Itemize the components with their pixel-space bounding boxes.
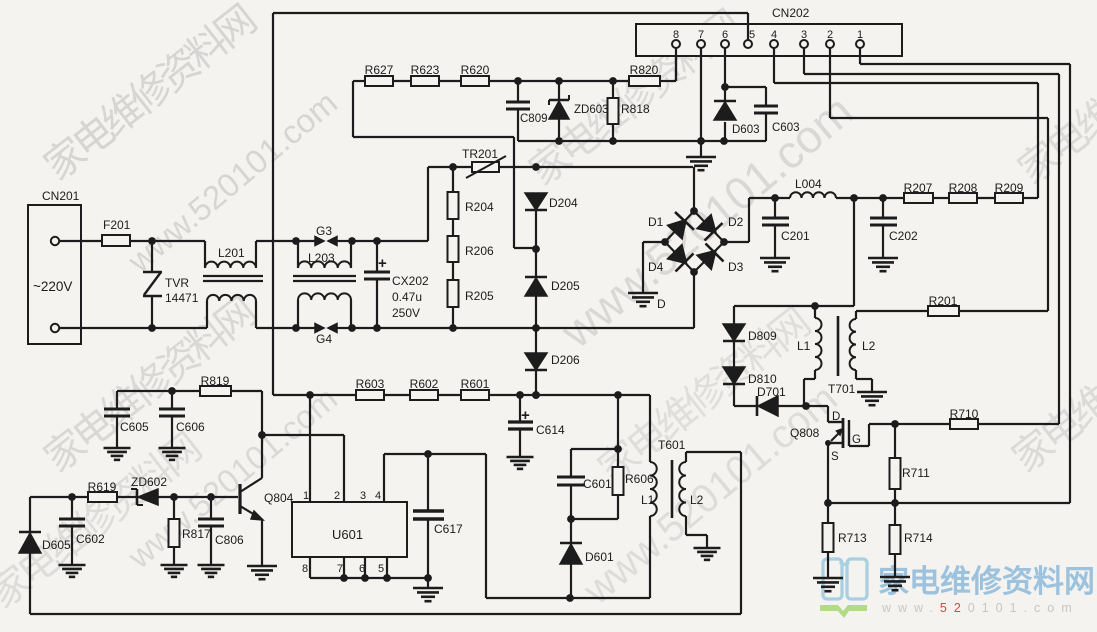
resistor R603 [356,377,385,400]
node D701 T701 junction [802,402,828,410]
wire R602-R601 [438,394,461,396]
wire Q808 gate [849,424,895,446]
svg-text:G: G [852,434,861,446]
ground C605 [104,448,131,460]
capacitor C605 [104,391,149,448]
svg-text:4: 4 [771,29,777,41]
svg-text:5: 5 [749,29,755,41]
resistor R818 [608,81,651,141]
capacitor C606 [159,391,205,448]
svg-text:2: 2 [827,29,833,41]
wire R603 row left [273,391,356,399]
svg-text:R713: R713 [838,531,867,545]
svg-text:ZD602: ZD602 [131,475,167,489]
wire CN201 to F201 [59,240,102,242]
ground U601 bus [413,578,443,601]
wire source rail [824,499,1070,507]
svg-text:L1: L1 [797,339,811,353]
svg-text:CN201: CN201 [42,189,80,203]
inductor L004 [790,177,836,198]
svg-text:R602: R602 [410,377,439,391]
svg-text:2: 2 [334,490,340,502]
transistor Q804 [240,478,294,520]
wire pin5 into CN202 [747,13,749,40]
wire pin7 stub [700,48,702,141]
inductor L201 top winding [205,241,256,268]
svg-text:L2: L2 [690,493,704,507]
thermistor TR201 [462,147,506,178]
transformer T701 core [837,316,840,376]
svg-text:1: 1 [857,29,863,41]
wire R603-R602 [384,394,410,396]
svg-text:R711: R711 [902,466,930,480]
svg-text:G3: G3 [316,224,332,238]
wire bridge left to D ground [643,242,665,293]
spark gap G3 [292,224,356,246]
capacitor C614 [508,395,565,457]
svg-text:5: 5 [378,563,384,575]
svg-text:250V: 250V [392,306,420,320]
svg-text:C605: C605 [120,420,149,434]
svg-text:R819: R819 [201,374,230,388]
wire R209 to pin4 [1023,197,1038,199]
svg-text:R817: R817 [182,527,211,541]
zener diode ZD602 [117,475,238,505]
svg-text:3: 3 [801,29,807,41]
ground C614 [507,457,534,469]
wire R208-R209 [977,197,995,199]
transformer T601 secondary L2 [679,452,707,548]
ground C201 [760,258,790,271]
logo 520101 bottom right [820,559,1095,618]
svg-text:R206: R206 [465,244,494,258]
diode D809 [723,306,777,343]
capacitor C617 [413,454,463,578]
wire U601 pin4 row [384,450,486,502]
wire pin4 harness [774,48,1038,198]
svg-text:C603: C603 [772,122,800,134]
svg-text:D601: D601 [585,550,614,564]
diode D206 [525,328,580,399]
wire R619 row [30,493,88,501]
svg-text:D4: D4 [648,260,664,274]
transformer T601 primary L1 [641,395,657,598]
svg-text:T601: T601 [658,438,686,452]
transformer T601 core [671,460,674,518]
wire Q804 emitter [261,520,263,566]
svg-text:D603: D603 [732,124,760,136]
bridge rectifier D1 D2 D3 D4 [648,167,744,276]
wire D204 node [532,210,540,253]
svg-text:C614: C614 [536,423,565,437]
diode D204 [525,193,578,210]
svg-text:D1: D1 [648,215,664,229]
resistor R606 [567,449,654,523]
wire D810 to D701 [734,384,757,406]
ground C806 [198,565,225,577]
capacitor C602 [59,497,105,565]
resistor R208 [949,181,978,203]
varistor TVR 14471 [143,241,199,328]
svg-text:D: D [832,411,840,423]
resistor R713 [823,503,868,578]
resistor R209 [995,181,1024,203]
label T701 [828,382,856,396]
svg-text:8: 8 [302,563,308,575]
inductor L201 bottom winding [207,295,256,328]
transformer T701 primary L1 [797,306,822,406]
svg-text:www.520101.com: www.520101.com [881,601,1079,615]
svg-text:C201: C201 [781,229,810,243]
svg-text:R207: R207 [904,181,933,195]
capacitor CX202 0.47u 250V [364,237,429,328]
wire T701 L2 to R201 [856,310,928,312]
svg-text:L004: L004 [795,177,822,191]
wire Q808 source [827,443,829,503]
svg-text:7: 7 [698,29,704,41]
svg-text:D: D [657,297,666,311]
diode D701 [757,385,806,416]
resistor R820 [629,48,676,86]
diode D205 [525,249,580,296]
resistor R627 [353,63,394,86]
ground R713 [813,578,843,591]
svg-text:C606: C606 [176,420,205,434]
svg-text:R620: R620 [461,63,490,77]
zener diode ZD603 [549,81,609,141]
wire R207-R208 [933,197,949,199]
diode D601 [560,519,614,598]
diode D810 [723,341,777,386]
svg-text:Q804: Q804 [264,491,294,505]
svg-text:C601: C601 [583,477,612,491]
wire F201 to L201 [130,237,205,245]
wire R601 row right [489,391,650,399]
svg-text:4: 4 [375,490,381,502]
connector CN202 [636,6,902,56]
transformer T701 secondary L2 [850,311,876,392]
capacitor C201 [762,198,810,258]
capacitor C806 [198,497,244,565]
resistor R205 [448,262,495,328]
ic U601 [292,490,407,575]
svg-text:R714: R714 [904,531,933,545]
wire L201 to G4 [256,327,296,329]
wire R819 to Q804 collector [231,391,266,439]
svg-text:D206: D206 [551,353,580,367]
resistor R817 [169,497,212,565]
wire collector to pin2 row [262,435,344,502]
wire pin1 harness [860,48,1070,503]
svg-text:D605: D605 [42,538,71,552]
wire R620 to R820 [489,77,629,85]
svg-text:R820: R820 [630,63,659,77]
wire L004 node to T701 [853,198,855,306]
wire left rail top [29,497,31,532]
wire bottom rail [30,613,741,615]
wire pin3 harness [804,48,1059,424]
ground T601 L2 [694,548,721,560]
svg-text:TVR: TVR [165,276,189,290]
wire ground rail [518,137,766,145]
ground C202 [868,258,898,271]
diode D603 [714,83,760,141]
svg-text:3: 3 [360,490,366,502]
resistor R623 [393,63,440,86]
resistor R619 [88,480,117,502]
svg-text:R205: R205 [465,289,494,303]
svg-text:D204: D204 [549,196,578,210]
svg-text:R818: R818 [621,102,650,116]
svg-text:R606: R606 [625,472,654,486]
label T601 [658,438,686,452]
fuse F201 [102,218,131,246]
svg-text:L201: L201 [218,246,245,260]
svg-text:R619: R619 [88,480,117,494]
ground C606 [159,448,186,460]
ground C602 [59,565,86,577]
svg-text:R601: R601 [461,377,490,391]
capacitor C202 [870,198,918,258]
wire bridge right to L004 [724,194,790,242]
wire pin6 stub [724,48,726,87]
svg-text:F201: F201 [103,218,131,232]
svg-text:CN202: CN202 [772,6,810,20]
svg-text:L2: L2 [862,339,876,353]
svg-text:R603: R603 [356,377,385,391]
svg-text:+: + [521,407,530,424]
svg-text:1: 1 [303,490,309,502]
ground pin7 rail [686,141,716,170]
wire U601 bottom bus [310,557,432,582]
svg-text:C806: C806 [215,533,244,547]
wire CX202 to TR201 riser [377,167,428,241]
wire L004 right [836,194,904,202]
ground R817 [161,565,188,577]
svg-text:14471: 14471 [165,291,199,305]
resistor R207 [904,181,933,203]
svg-text:TR201: TR201 [462,147,498,161]
wire R819 row [117,387,200,395]
inductor L203 core [293,276,356,281]
svg-text:D810: D810 [748,372,777,386]
svg-text:R710: R710 [950,407,979,421]
resistor R206 [448,219,495,262]
wire CN202 pin5 feed left border [273,13,748,395]
svg-text:L203: L203 [308,251,335,265]
wire TR201 row [428,163,693,171]
svg-text:D2: D2 [728,215,744,229]
wire T601 L2 to bottom rail [686,452,741,614]
transistor Q808 [790,406,861,463]
wire Q804 collector [261,435,263,478]
resistor R710 [895,407,1059,429]
svg-text:R623: R623 [411,63,440,77]
svg-text:CX202: CX202 [392,274,429,288]
svg-text:D205: D205 [551,279,580,293]
wire bridge bottom [693,272,695,328]
svg-text:R209: R209 [995,181,1024,195]
svg-text:7: 7 [337,563,343,575]
resistor R601 [461,377,490,400]
wire D205 to AC line [535,296,537,328]
svg-text:C809: C809 [520,113,548,125]
svg-text:Q808: Q808 [790,426,820,440]
svg-text:R201: R201 [929,294,958,308]
resistor R620 [439,63,490,86]
svg-text:8: 8 [673,29,679,41]
svg-text:ZD603: ZD603 [574,104,609,116]
svg-text:+: + [378,255,387,272]
wire pin2 harness [830,48,1048,311]
wire G3 to CX202 [352,240,377,242]
wire L201 to G3 [256,240,296,242]
ground D hot [628,293,666,311]
wire pin1 column [309,395,311,502]
wire CN201 bottom to L201 [59,324,207,332]
svg-text:家电维修资料网: 家电维修资料网 [878,564,1095,599]
wire R627 left drop [353,81,536,248]
svg-text:C202: C202 [889,229,918,243]
spark gap G4 [292,324,356,347]
ground T701 L2 [857,392,887,405]
wire D601 branch top [571,395,622,477]
wire pin8 stub [675,48,677,81]
inductor L201 core [203,276,263,281]
resistor R204 [448,167,495,219]
svg-text:~220V: ~220V [33,279,72,294]
resistor R714 [890,503,934,577]
capacitor C601 [557,477,612,519]
capacitor C809 [506,81,548,141]
diode D605 [19,532,71,614]
svg-text:C617: C617 [434,522,463,536]
ground R714 [880,577,910,590]
svg-text:R627: R627 [365,63,394,77]
svg-text:0.47u: 0.47u [392,290,422,304]
svg-text:R204: R204 [465,200,494,214]
resistor R711 [890,424,931,503]
resistor R819 [200,374,231,396]
inductor L203 top winding [298,241,351,268]
wire G4 to bridge [352,324,694,332]
node gate R710 R711 [891,420,899,428]
svg-text:C602: C602 [76,532,105,546]
resistor R201 [928,294,1048,316]
ground Q804 emitter [247,566,277,579]
svg-text:S: S [831,451,839,463]
svg-text:T701: T701 [828,382,856,396]
capacitor C603 [725,87,800,141]
svg-text:6: 6 [722,29,728,41]
connector CN201 [28,189,81,344]
svg-text:D809: D809 [748,329,777,343]
svg-text:R208: R208 [949,181,978,195]
svg-text:L1: L1 [641,493,655,507]
svg-text:G4: G4 [316,332,332,346]
wire C617 leg [486,454,650,602]
wire T701 top [734,302,854,310]
inductor L203 bottom winding [298,293,351,328]
svg-text:D3: D3 [728,260,744,274]
svg-text:D701: D701 [757,385,786,399]
resistor R602 [410,377,439,400]
svg-text:U601: U601 [332,527,363,542]
